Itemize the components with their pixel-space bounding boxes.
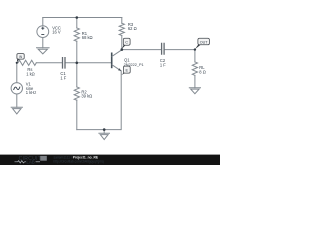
- source V1 circle: [11, 83, 22, 94]
- footer black bar: [0, 155, 220, 165]
- pin label E emitter: [121, 66, 130, 75]
- node dot rail/R1: [76, 16, 79, 19]
- wire rail corner to R3 top: [121, 18, 123, 24]
- svg-text:1 F: 1 F: [160, 62, 166, 67]
- pin flag OUT: [195, 38, 210, 49]
- V1 sine glyph: [14, 87, 20, 90]
- svg-text:1 F: 1 F: [60, 76, 66, 81]
- wire OUT node down to RL: [194, 50, 196, 62]
- svg-text:68 kΩ: 68 kΩ: [82, 35, 93, 40]
- svg-text:Q1: Q1: [124, 57, 130, 62]
- logo light block: [40, 156, 47, 161]
- ground below V1: [11, 107, 22, 114]
- wire C1 to base: [65, 62, 111, 64]
- capacitor C1 plates: [63, 57, 66, 69]
- transistor Q1 NPN: [112, 50, 122, 71]
- wire VCC bottom lead: [42, 38, 44, 48]
- svg-text:1 kΩ: 1 kΩ: [26, 71, 35, 76]
- node dot base: [76, 62, 79, 65]
- ground bottom emitter net: [99, 133, 110, 139]
- svg-text:E: E: [125, 68, 128, 73]
- svg-text:39 kΩ: 39 kΩ: [81, 93, 92, 98]
- VCC plus minus marks: [41, 27, 44, 35]
- wire R1 bottom to base node: [76, 41, 78, 63]
- resistor R3 zigzag: [119, 23, 124, 35]
- resistor R1 zigzag: [74, 28, 79, 41]
- resistor R2 zigzag: [74, 87, 79, 100]
- wire R1 top lead: [76, 18, 78, 28]
- wire Rs to C1: [36, 62, 62, 64]
- pin flag IN: [17, 54, 24, 63]
- wire top rail VCC to R3: [43, 17, 122, 19]
- svg-text:http://circuitlab.com/c64i8gqy: http://circuitlab.com/c64i8gqyq7gmq: [54, 160, 104, 164]
- pin label C collector: [122, 38, 130, 49]
- capacitor C2 plates: [162, 43, 165, 55]
- resistor Rs zigzag horizontal: [17, 60, 37, 65]
- ground below RL: [189, 88, 200, 94]
- node dot IN: [16, 62, 18, 64]
- ground below VCC: [37, 48, 50, 54]
- wire ground stub bottom: [103, 130, 105, 134]
- wire C2 to OUT node: [165, 49, 195, 51]
- svg-text:C: C: [125, 40, 128, 45]
- resistor RL zigzag: [192, 62, 197, 76]
- svg-text:62 Ω: 62 Ω: [128, 26, 137, 31]
- svg-text:16 V: 16 V: [52, 30, 61, 35]
- wire R2 bottom: [76, 100, 78, 129]
- voltage source VCC circle: [37, 26, 49, 38]
- node dot OUT: [194, 48, 196, 50]
- wire collector to C2: [122, 49, 161, 51]
- svg-text:1 kHz: 1 kHz: [26, 90, 36, 95]
- logo resistor zigzag and LAB: [15, 160, 41, 165]
- node dot bottom ground: [103, 128, 106, 131]
- wire bottom emitter return: [77, 71, 121, 130]
- resistor R2 top lead: [76, 63, 78, 87]
- wire R3 bottom to collector: [121, 36, 123, 50]
- node dot collector: [121, 48, 124, 51]
- wire VCC top lead: [42, 18, 44, 26]
- svg-text:8 Ω: 8 Ω: [199, 69, 205, 74]
- svg-text:OUT: OUT: [200, 40, 209, 44]
- wire RL bottom lead: [194, 75, 196, 87]
- svg-text:LAB: LAB: [26, 160, 34, 165]
- wire IN node down to V1: [16, 63, 18, 83]
- wire V1 bottom lead: [16, 94, 18, 107]
